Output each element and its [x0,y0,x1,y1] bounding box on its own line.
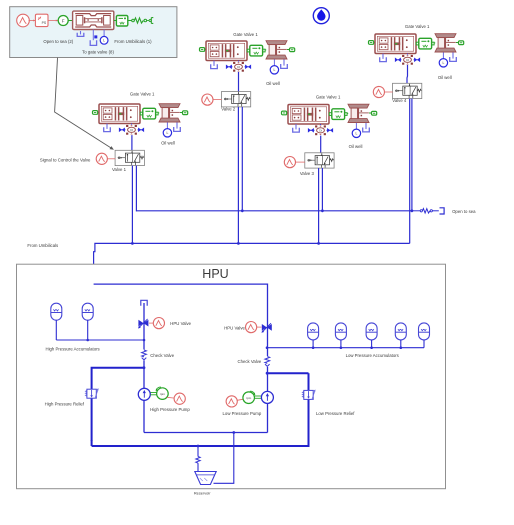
svg-text:Valve 3: Valve 3 [300,171,315,176]
signal source for Valve 1 [96,153,107,164]
subsystem valve block [73,11,114,29]
svg-text:Reservoir: Reservoir [194,490,211,495]
manifold bottom edge [144,432,268,434]
wire Valve 1 to sea bus [135,166,137,212]
node to gate valve port [94,35,97,38]
svg-text:Valve 4: Valve 4 [392,98,407,103]
wire S1 to converter [29,20,35,22]
relief valve high pressure [85,388,98,398]
svg-text:HPU Valve: HPU Valve [170,321,191,326]
annotation arrow from subsystem to Valve 1 [55,58,112,149]
svg-text:HPU Valve: HPU Valve [224,326,245,331]
svg-text:Open to sea (2): Open to sea (2) [43,39,73,44]
svg-text:Gate Valve 1: Gate Valve 1 [130,91,155,96]
end cap element [147,20,150,22]
wire Valve 3 to return bus [318,168,320,243]
spring element [132,19,135,22]
svg-text:L: L [103,39,105,43]
fluid chamber circle in subsystem [103,30,105,37]
svg-text:High Pressure Pump: High Pressure Pump [150,407,190,412]
control valve block Valve 4 [393,83,422,98]
wire Valve 4 to return bus [409,99,411,244]
reservoir feed line with spring [197,446,199,457]
svg-text:Oil well: Oil well [266,81,280,86]
control valve block Valve 3 [305,153,334,168]
HP column top cap [141,300,147,306]
check valve left [140,350,148,361]
svg-text:PS: PS [42,21,47,25]
svg-text:From Umbilicals: From Umbilicals [27,243,58,248]
LP accumulator bus [267,347,424,349]
wire Valve 2 to sea bus [241,107,243,211]
thick HP relief branch [92,368,144,441]
return bus B with umbilical leg [94,243,410,284]
reservoir return branch [214,433,234,484]
wire Valve 1 to return bus [131,166,133,244]
wire choke to Valve 3 [320,136,322,153]
thin relief stubs [91,440,93,446]
svg-text:High Pressure Relief: High Pressure Relief [45,402,85,407]
svg-text:Low Pressure Accumulators: Low Pressure Accumulators [346,353,399,358]
HPU enclosure box [17,264,446,489]
wire choke to Valve 4 [406,65,409,83]
fluid properties droplet block [313,8,329,24]
gate valve cluster GV mid-right [282,104,377,137]
HPU valve left [138,319,148,329]
sensor block in subsystem [116,16,127,27]
ground bracket to-gate-valve [90,40,96,45]
relief valve low pressure [302,390,315,400]
junction dots sea bus [241,209,244,212]
LP accumulators [308,323,319,340]
svg-text:Oil well: Oil well [161,141,175,146]
wire choke to Valve 1 [131,135,133,150]
svg-text:Check Valve: Check Valve [237,359,261,364]
svg-text:HPU: HPU [202,267,228,281]
junction dots return bus [131,242,134,245]
svg-text:From Umbilicals (1): From Umbilicals (1) [114,39,152,44]
gate valve cluster GV mid-left [93,104,188,137]
svg-text:High Pressure Accumulators: High Pressure Accumulators [45,346,99,351]
wire sensor to spring [128,20,132,22]
sea bus A [136,210,412,212]
control valve block Valve 1 [115,150,144,165]
HP accumulator 1 [51,303,62,320]
svg-text:Low Pressure Pump: Low Pressure Pump [223,411,262,416]
signal source for Valve 2 [202,94,213,105]
thick return bottom bus [92,378,309,446]
ground bracket under subsystem valve (open to sea port) [77,31,84,36]
control valve block Valve 2 [221,92,250,107]
svg-text:Oil well: Oil well [349,144,363,149]
converter block S-PS [35,14,48,26]
svg-text:To gate valve (8): To gate valve (8) [82,50,114,55]
signal source for Valve 3 [284,157,295,168]
wire Valve 4 to sea bus [411,99,413,211]
svg-text:Valve 1: Valve 1 [112,167,127,172]
signal source for Valve 4 [373,86,384,97]
reservoir junction dots [232,431,235,434]
HP accumulator 2 [82,303,93,320]
high pressure pump [138,388,150,400]
svg-text:F: F [62,18,65,23]
thick LP relief branch top [267,372,308,374]
gate valve cluster GV top-right [369,34,464,67]
wire F to valve [68,20,72,22]
signal source S1 [17,14,30,27]
wire Valve 2 to return bus [237,107,239,244]
wire Valve 3 to sea bus [321,168,323,211]
HPU valve right [246,322,257,333]
svg-text:Open to sea: Open to sea [452,209,476,214]
wire converter to F [48,20,58,22]
low pressure pump [226,396,237,407]
wire choke to Valve 2 [238,72,240,92]
svg-text:Check Valve: Check Valve [150,353,174,358]
svg-text:Gate Valve 1: Gate Valve 1 [405,24,430,29]
svg-text:Gate Valve 1: Gate Valve 1 [316,95,341,100]
wire valve to sensor [114,20,117,22]
manifold top edge and LP column [94,284,268,432]
open to sea spring termination [412,210,420,212]
HP column [143,303,145,433]
gate valve cluster GV top-middle [200,41,295,74]
check valve right [264,356,272,367]
svg-text:Oil well: Oil well [438,75,452,80]
reservoir tank [195,472,216,485]
svg-text:Signal to Control the Valve: Signal to Control the Valve [40,158,91,163]
HP accumulator bus [56,339,144,341]
svg-text:Low Pressure Relief: Low Pressure Relief [316,411,355,416]
svg-text:Valve 2: Valve 2 [221,106,236,111]
svg-text:Gate Valve 1: Gate Valve 1 [233,32,258,37]
subsystem box (umbilical test rig) [10,7,177,58]
force source F [58,16,68,26]
